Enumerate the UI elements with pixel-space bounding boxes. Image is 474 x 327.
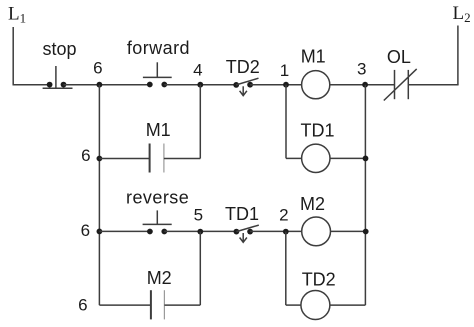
node 2 junction xyxy=(283,229,289,235)
svg-text:M2: M2 xyxy=(300,194,325,214)
coil TD2 xyxy=(301,291,330,320)
svg-text:TD1: TD1 xyxy=(300,121,334,141)
wire: node 2 vertical to TD2 coil xyxy=(285,232,287,306)
contact M2 (NO) xyxy=(151,290,165,319)
overload OL xyxy=(384,69,417,101)
wire TD2 row: coil to node3 bus xyxy=(330,304,366,306)
wire rung2: node6 to M1 contact xyxy=(99,158,149,160)
coil M1 xyxy=(302,71,330,99)
junction TD1 row at bus xyxy=(363,156,369,162)
coil TD1 xyxy=(302,144,330,172)
node 6 junction (rung3) xyxy=(97,229,103,235)
contact M1 (NO) xyxy=(150,144,164,173)
node 4 junction xyxy=(197,82,203,88)
left power rail L1 xyxy=(12,27,14,85)
svg-text:stop: stop xyxy=(42,39,76,59)
wire rung4: node6 corner to M2 contact xyxy=(99,304,150,306)
wire: node 1 vertical to TD1 coil xyxy=(285,85,287,159)
wire rung1: stop to node 6 to forward button xyxy=(64,84,151,86)
node 5 junction xyxy=(197,229,203,235)
wire rung3: TD1 contact to node 2 to M2 coil xyxy=(250,230,302,232)
wire: node 5 vertical to M2 contact rung xyxy=(199,232,201,306)
node 6 junction (rung1) xyxy=(97,82,103,88)
right power rail L2 xyxy=(457,26,459,85)
svg-text:6: 6 xyxy=(93,59,102,78)
TD2 timed contact (NOTC) xyxy=(233,78,258,95)
wire: node 3 vertical bus xyxy=(364,85,366,305)
forward pushbutton (NO) xyxy=(143,62,172,87)
wire rung2: M1 contact up to node 4 xyxy=(164,158,200,160)
node 6 junction (rung2) xyxy=(97,156,103,162)
wire rung1: TD2 contact to node 1 to M1 coil xyxy=(250,84,302,86)
wire TD1 row: coil to node3 bus xyxy=(330,157,365,159)
svg-text:forward: forward xyxy=(127,38,190,58)
node 1 junction xyxy=(283,82,289,88)
wire: node 6 vertical feeder xyxy=(98,85,100,305)
wire rung1: M1 coil to node 3 to OL xyxy=(330,84,395,86)
svg-text:TD2: TD2 xyxy=(226,57,260,77)
svg-text:TD1: TD1 xyxy=(225,204,259,224)
wire rung1: L1 rail to stop button xyxy=(13,84,51,86)
svg-text:M1: M1 xyxy=(301,47,326,67)
wire rung3: node6 to reverse button xyxy=(99,230,150,232)
svg-text:reverse: reverse xyxy=(126,187,189,207)
junction rung3 at bus xyxy=(363,229,369,235)
wire rung3: reverse to node 5 to TD1 contact xyxy=(164,230,236,232)
wire rung3: M2 coil to node3 bus xyxy=(331,230,366,232)
svg-text:6: 6 xyxy=(81,146,90,165)
stop pushbutton (NC) xyxy=(43,66,73,88)
svg-text:OL: OL xyxy=(387,47,411,67)
svg-text:M2: M2 xyxy=(147,268,172,288)
svg-text:M1: M1 xyxy=(146,120,171,140)
svg-text:2: 2 xyxy=(279,206,288,225)
svg-text:3: 3 xyxy=(357,60,366,79)
node 3 junction xyxy=(362,82,368,88)
TD1 timed contact (NOTC) xyxy=(234,225,259,242)
svg-text:1: 1 xyxy=(280,61,289,80)
svg-text:6: 6 xyxy=(81,221,90,240)
svg-text:4: 4 xyxy=(193,61,202,80)
wire rung1: forward to node 4 to TD2 contact xyxy=(164,84,236,86)
svg-text:6: 6 xyxy=(78,296,87,315)
coil M2 xyxy=(302,217,331,246)
svg-text:5: 5 xyxy=(194,206,203,225)
svg-text:TD2: TD2 xyxy=(302,269,336,289)
wire: node 4 vertical to M1 contact rung xyxy=(199,85,201,159)
wire rung4: M2 contact up to node 5 xyxy=(164,304,200,306)
wire rung1: OL to L2 rail xyxy=(408,84,458,86)
reverse pushbutton (NO) xyxy=(143,210,172,234)
wire TD2 row: node2 corner to TD2 coil xyxy=(286,304,301,306)
wire TD1 row: node1 corner to TD1 coil xyxy=(286,157,302,159)
